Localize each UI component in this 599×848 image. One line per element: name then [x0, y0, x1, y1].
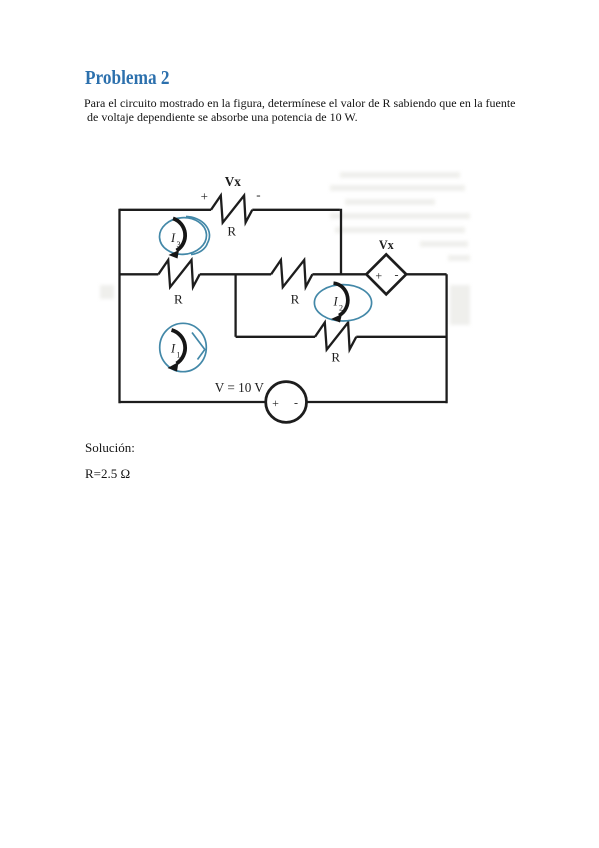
svg-text:Vx: Vx	[379, 238, 395, 252]
svg-text:1: 1	[177, 351, 181, 360]
svg-text:-: -	[395, 268, 399, 282]
svg-text:2: 2	[339, 304, 343, 313]
svg-text:+: +	[201, 189, 208, 204]
svg-text:V = 10 V: V = 10 V	[215, 380, 265, 395]
svg-text:3: 3	[177, 240, 181, 249]
svg-text:I: I	[170, 231, 176, 245]
svg-text:+: +	[272, 396, 279, 410]
svg-text:R: R	[174, 292, 183, 307]
svg-text:I: I	[170, 342, 176, 356]
svg-text:+: +	[375, 269, 382, 283]
svg-text:I: I	[333, 295, 339, 309]
svg-text:-: -	[294, 396, 298, 410]
svg-text:R: R	[227, 224, 236, 239]
svg-text:Vx: Vx	[225, 174, 242, 189]
svg-text:R: R	[331, 350, 340, 365]
svg-text:R: R	[291, 292, 300, 307]
svg-text:-: -	[256, 187, 260, 202]
